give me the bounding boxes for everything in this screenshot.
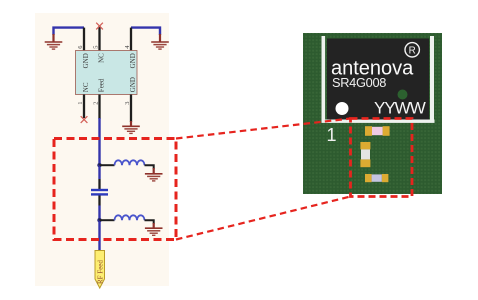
ground (right) (151, 42, 169, 49)
wire junction A to capacitor (98, 165, 100, 179)
ground (branch 2) (145, 228, 163, 235)
ground (left) (45, 42, 63, 49)
silkscreen bar right (430, 36, 434, 120)
wire top-right (pin 4 to GND) (131, 28, 160, 35)
inductor L1 (115, 160, 145, 165)
svg-text:NC: NC (82, 82, 90, 92)
ground stem branch 2 (153, 223, 155, 228)
svg-text:2: 2 (92, 102, 99, 105)
SMD component top body (372, 127, 383, 135)
ground stem pin 3 (130, 121, 132, 126)
pin 5 (98, 26, 100, 51)
ground (branch 1) (145, 174, 163, 181)
SMD component bottom (pads) (365, 174, 372, 182)
svg-text:R: R (409, 45, 416, 56)
wire to RF Feed port (98, 220, 100, 251)
svg-text:GND: GND (129, 77, 137, 92)
green via dot (398, 90, 408, 100)
svg-text:RF Feed: RF Feed (96, 260, 104, 284)
SMD component bottom body (372, 174, 382, 181)
svg-text:GND: GND (82, 53, 90, 68)
inductor L2 (115, 215, 145, 220)
svg-text:3: 3 (124, 102, 131, 105)
callout line bottom (176, 197, 351, 240)
antenna module body (327, 39, 429, 120)
svg-text:1: 1 (327, 125, 337, 145)
silkscreen line bottom (322, 120, 435, 123)
SMD component middle body (361, 149, 370, 159)
SMD component top (pads) (365, 126, 372, 136)
no-ERC marker pin 5 (96, 23, 103, 30)
callout line top (176, 119, 351, 139)
ground stem branch 1 (153, 168, 155, 174)
port RF Feed (95, 251, 105, 289)
wire branch 1 (100, 164, 115, 166)
wire inductor 2 to ground (145, 220, 154, 224)
svg-text:5: 5 (92, 46, 99, 49)
pin 1 (83, 95, 85, 119)
svg-text:Feed: Feed (97, 78, 105, 92)
SMD component middle (pads) (360, 142, 370, 149)
no-ERC marker pin 1 (81, 116, 88, 123)
svg-text:1: 1 (77, 102, 84, 105)
capacitor pin top (98, 179, 100, 189)
capacitor C1 plates (91, 189, 108, 191)
svg-text:YYWW: YYWW (374, 99, 426, 118)
wire branch 2 (100, 219, 115, 221)
junction node A (97, 163, 101, 167)
highlight box (schematic) (54, 139, 176, 240)
junction node B (97, 218, 101, 222)
component box U1 (76, 51, 138, 95)
pin 1 dot (white) (336, 102, 349, 115)
svg-text:NC: NC (97, 53, 105, 63)
pin 3 (130, 95, 132, 123)
wire capacitor to junction B (98, 206, 100, 221)
svg-text:SR4G008: SR4G008 (332, 75, 386, 90)
silkscreen bar left (322, 36, 326, 120)
PCB photo board (303, 33, 442, 194)
svg-text:GND: GND (129, 53, 137, 68)
ground (pin 3) (122, 126, 140, 133)
wire inductor 1 to ground (145, 165, 154, 169)
pin 2 (98, 95, 100, 120)
ground stem right (159, 34, 161, 42)
wire top-left (pin 6 to GND) (54, 28, 85, 35)
pin 4 (130, 28, 132, 51)
schematic sheet background (35, 13, 169, 286)
highlight box (photo) (351, 119, 413, 197)
ground stem left (52, 34, 54, 42)
wire feed (pin 2 down) (98, 118, 100, 165)
registered trademark symbol (405, 43, 419, 57)
capacitor pin bottom (98, 196, 100, 206)
pin 6 (83, 28, 85, 51)
